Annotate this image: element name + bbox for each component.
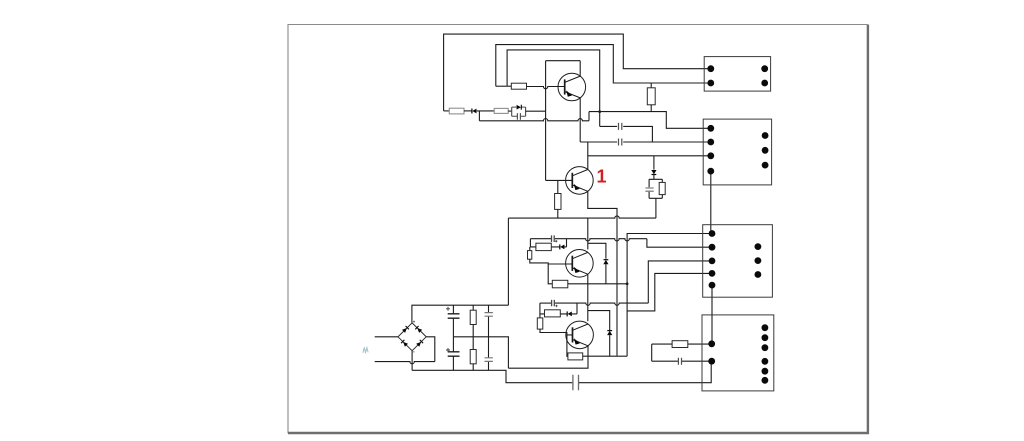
RC cap C4 plates [645,188,653,191]
RC3 top branch left [530,238,551,240]
junction [626,282,629,285]
wire R9 right to pin1 net [568,283,627,285]
wire cap C2 branch [600,126,653,142]
wire Q4 collector branch [588,311,610,330]
C8 plus [446,307,450,311]
capacitor C11 [488,337,490,371]
resistor R11 [537,318,543,329]
combo top branch wire [512,106,526,108]
wire collector branch [588,243,606,258]
wire pin3 riser [648,261,712,303]
RC4 resistor R10 [545,310,561,317]
wire R12 right [583,355,627,357]
wire pin2 drop [647,239,712,248]
transistor Q3 [566,249,594,277]
J1 pin2 [707,80,714,87]
wire Q1 collector [579,61,581,77]
J2 pin4 [707,168,714,175]
wire diode bottom [609,335,611,356]
capacitor C10 [488,305,490,337]
RC3 left node [529,239,531,247]
bridge diode BL [403,342,408,347]
transistor Q4 [566,321,594,349]
wire left node down [539,314,541,318]
wire emitter branch to conn2 pin2 [580,141,711,143]
RC4 top branch left [540,302,551,304]
AC right loop [426,337,435,362]
electrolytic C8 [452,305,454,337]
wire conn2 pin4 down [710,171,712,233]
wire R3 to Q1 base (hop over feedback) [527,87,565,89]
diode-cap combo frame [512,107,526,116]
wire to conn2 pin3 [588,155,711,157]
wire Q1 emitter [579,98,581,142]
wire Q3 collector [587,218,589,249]
connector J3 body [703,225,773,298]
wire +V rail [508,216,656,218]
wire R1-D1 [464,110,472,112]
bridge diamond [398,323,426,351]
J1 pin4 [761,80,768,87]
RC resistor R5 [659,182,665,194]
RC5 left link [651,344,653,361]
connector J2 body [703,119,771,185]
wire R4 bottom stub [650,105,652,112]
transistor Q1 [558,73,586,101]
J1 pin3 [761,65,768,72]
wire conn3 pin1 net [627,234,712,357]
C9 plates [448,352,460,356]
bridge diode BR [416,342,421,347]
bridge diode TR [417,328,422,333]
resistor R12 [568,353,583,360]
connector J1 body [704,57,770,92]
wire jog up [588,112,590,121]
wire R2-combo [508,110,512,112]
wire combo to +rail [655,198,657,218]
J4 pin5 [762,344,769,351]
C10 plates [485,313,493,317]
resistor R1 [449,108,464,114]
resistor R14 [470,350,476,364]
combo bottom branch wire [512,115,526,117]
J2 pin3 [707,152,714,159]
wire y111 to conn2 pin1 [589,112,711,129]
RC4 cap C6 plates [552,300,555,306]
R14 stubs [472,337,474,371]
wire Q2 base [546,179,573,181]
J3 pin5 [709,282,716,289]
wire diode bottom [605,264,607,284]
wire left node down [529,247,531,251]
J4 pin1 [708,340,715,347]
wire Q2 base resistor stub [557,180,559,193]
diode D4 [603,260,608,264]
RC resistor stubs [661,179,663,198]
wire Q2 emitter path [588,191,617,355]
wire pin4 branch [627,273,712,311]
combo capacitor C1 plates [517,113,520,120]
svg-text:1: 1 [597,167,607,187]
J2 pin2 [707,139,714,146]
J3 pin8 [755,271,762,278]
wire +V rail drop [507,218,509,305]
transistor Q2 [566,167,594,195]
wire net3 top [507,50,600,127]
C8 plates [448,314,460,318]
AC wire lower [375,362,435,364]
J4 pin8 [762,377,769,384]
J2 pin5 [762,132,769,139]
resistor R13 [470,310,476,324]
wire conn3 pin5 down [711,285,713,344]
wire stub [653,174,655,179]
RC4 right node [576,303,578,314]
J2 pin6 [762,147,769,154]
AC wire upper [375,336,398,338]
J4 pin4 [762,334,769,341]
RC5 bottom branch [652,360,712,362]
page sheet [288,24,869,433]
wire R8 to base [530,259,573,264]
RC3 cap C5 plates [552,235,555,242]
J2 pin7 [762,162,769,169]
RC5 cap C12 plates [678,358,681,365]
wire Q2 collector riser [587,142,589,170]
RC5 top branch [652,343,712,345]
plus sign [555,240,557,242]
C11 plates [485,358,493,362]
wire R1 feed [444,110,450,112]
RC4 diode D6 [566,311,568,316]
wire branch down [478,111,480,121]
C9 plus [446,348,450,352]
RC4 bottom branch [540,313,577,315]
resistor R8 [528,251,532,260]
wire bridge minus stub [411,351,413,371]
bridge diode TL [402,328,407,333]
wire base jog down [548,264,552,284]
AC source glyph [363,347,368,352]
resistor R4 [647,88,655,105]
plus sign [555,305,557,307]
RC5 resistor R15 [672,341,688,348]
bridge plus mark [413,321,415,323]
connector J4 body [702,315,774,391]
wire diode stub [653,156,655,170]
J4 pin6 [762,358,769,365]
J2 pin1 [707,125,714,132]
wire D1-node [477,110,495,112]
capacitor C3 plates [619,139,622,146]
RC3 top branch + long wire to conn3 pin2 [555,239,647,241]
J4 pin7 [762,368,769,375]
wire net1 top [444,34,711,111]
RC3 diode D5 [559,244,561,249]
J4 pin3 [762,324,769,331]
resistor R6 [555,194,561,210]
resistor R9 [552,280,568,288]
wire lower base net [479,119,589,121]
bridge minus mark [413,351,415,353]
junction [598,110,601,113]
wire R4 top stub [650,83,652,88]
capacitor C2 plates [619,123,622,130]
wire net2 top [496,45,711,87]
combo diode D2 [517,105,521,110]
wire Q4 emitter [508,346,588,368]
J3 pin4 [709,270,716,277]
R13 stubs [472,305,474,337]
wire top rail [412,305,509,323]
wire feedback loop [546,61,581,181]
RC3 resistor R7 [536,243,551,250]
wire mid rail [453,337,508,368]
J3 pin7 [755,257,762,264]
wire net2 to R3 [496,85,512,87]
RC combo frame [649,179,662,198]
RC cap branch [648,179,650,198]
RC4 left node [539,303,541,314]
wire combo-vert [526,110,546,112]
wire minus rail [412,370,572,382]
wire Q3 emitter [587,274,589,321]
capacitor C7 plates [573,375,579,391]
J3 pin1 [709,230,716,237]
J3 pin2 [709,244,716,251]
wire R6 bottom [557,209,559,218]
diode D3 [651,170,656,174]
J1 pin1 [707,65,714,72]
RC3 bottom branch [530,246,566,248]
electrolytic C9 [452,337,454,371]
RC4 top branch + long wire [555,303,648,305]
J4 pin2 [708,358,715,365]
J3 pin6 [755,243,762,250]
wire minus rail right [579,361,711,383]
diode D1 [471,109,473,114]
resistor R3 [511,83,526,89]
wire base jog down [567,335,568,356]
diode D7 [607,331,612,335]
wire R11 to base [540,329,573,335]
resistor R2 [494,108,508,113]
J3 pin3 [709,258,716,265]
RC3 right node [566,239,568,247]
